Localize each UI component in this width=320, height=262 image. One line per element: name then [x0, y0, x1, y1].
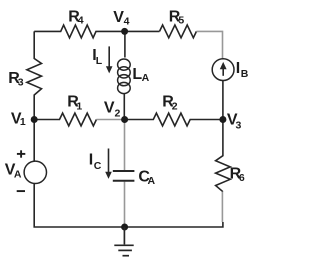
svg-text:4: 4: [124, 16, 130, 28]
svg-text:2: 2: [115, 108, 121, 120]
svg-text:5: 5: [178, 15, 184, 27]
svg-text:L: L: [96, 55, 103, 67]
svg-text:C: C: [94, 160, 102, 172]
svg-text:1: 1: [20, 116, 26, 128]
svg-text:I: I: [236, 60, 240, 77]
svg-text:A: A: [142, 72, 150, 84]
svg-text:6: 6: [239, 172, 245, 184]
svg-text:V: V: [104, 100, 115, 117]
svg-text:3: 3: [236, 120, 242, 132]
svg-text:I: I: [89, 152, 93, 169]
svg-text:B: B: [241, 68, 249, 80]
svg-text:3: 3: [18, 77, 24, 89]
svg-text:A: A: [14, 169, 22, 181]
svg-text:4: 4: [78, 15, 84, 27]
svg-text:A: A: [148, 175, 156, 187]
svg-text:1: 1: [76, 101, 82, 113]
svg-text:2: 2: [172, 101, 178, 113]
